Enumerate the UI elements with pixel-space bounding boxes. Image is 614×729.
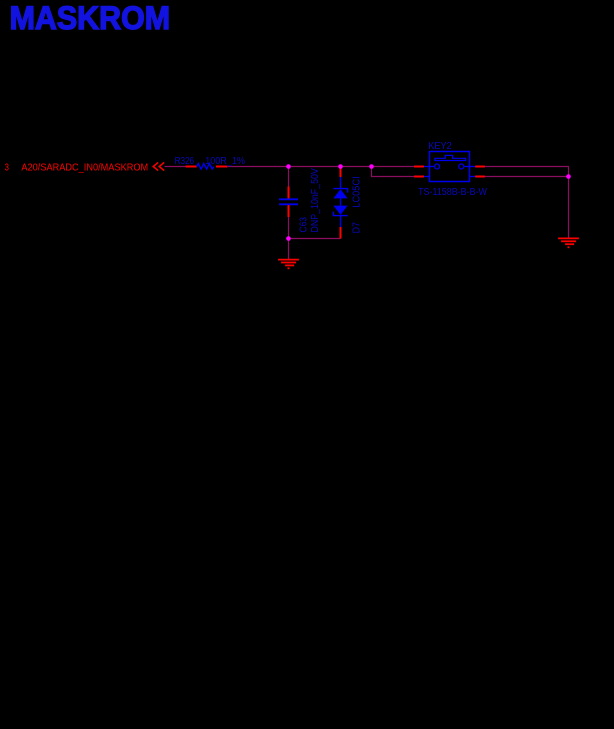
net label A20/SARADC_IN0/MASKROM [5, 163, 149, 174]
junction node at capacitor bottom [286, 236, 291, 241]
ground left [278, 260, 299, 269]
wire main horizontal left [165, 166, 187, 168]
wire upper right [485, 166, 570, 168]
wire lower left bend [372, 167, 415, 177]
svg-text:D7: D7 [352, 222, 363, 234]
svg-text:100R_1%: 100R_1% [205, 156, 245, 167]
off-page connector chevrons [153, 162, 164, 170]
ground right [558, 238, 579, 247]
wire main horizontal middle [227, 166, 415, 168]
svg-text:3: 3 [5, 163, 10, 174]
wire to right ground [568, 177, 570, 239]
wire capacitor bottom [288, 217, 290, 239]
capacitor C63 [279, 168, 321, 233]
wire to left ground [288, 239, 290, 260]
svg-text:DNP_10nF_50V: DNP_10nF_50V [310, 168, 321, 233]
wire capacitor top [288, 167, 290, 187]
svg-text:R326: R326 [175, 156, 195, 167]
resistor R326 [175, 156, 245, 169]
junction node at right bend [566, 174, 571, 179]
title MASKROM [10, 0, 171, 36]
svg-text:TS-1158B-B-B-W: TS-1158B-B-B-W [418, 187, 487, 198]
svg-text:A20/SARADC_IN0/MASKROM: A20/SARADC_IN0/MASKROM [21, 163, 148, 174]
svg-text:LC05CI: LC05CI [352, 176, 363, 207]
wire bottom horizontal [289, 238, 341, 240]
junction node at capacitor top [286, 164, 291, 169]
wire lower right [485, 176, 570, 178]
junction node at diode top [338, 164, 343, 169]
wire vertical right bend [568, 167, 570, 177]
TVS diode D7 [333, 168, 362, 239]
svg-text:KEY2: KEY2 [428, 141, 452, 152]
switch KEY2 [414, 141, 487, 198]
junction node at lower branch [369, 164, 374, 169]
svg-text:C63: C63 [299, 217, 310, 233]
svg-text:MASKROM: MASKROM [10, 0, 171, 36]
